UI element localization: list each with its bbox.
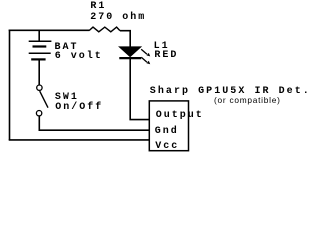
label Vcc pin <box>155 141 179 153</box>
label L1 <box>154 41 170 53</box>
wire top rail <box>9 29 90 31</box>
switch SW1 bottom contact circle <box>36 111 41 116</box>
label RED <box>154 50 178 62</box>
LED light arrow 1 head <box>147 53 151 57</box>
switch SW1 lever (open) <box>40 91 48 108</box>
battery BAT long plate 1 <box>29 40 52 42</box>
battery short thick plate 1 <box>33 45 47 47</box>
wire switch to Gnd pin <box>39 116 149 130</box>
label (or compatible) <box>214 95 281 105</box>
label Sharp GP1U5X IR Det. <box>150 86 311 98</box>
label On/Off <box>55 102 103 114</box>
LED light arrow 2 shaft <box>141 57 147 62</box>
label R1 <box>90 1 106 13</box>
label SW1 <box>55 92 79 104</box>
wire battery to switch <box>38 60 40 84</box>
wire left rail <box>9 30 11 140</box>
wire battery drop from top rail <box>38 30 40 41</box>
label Output pin <box>156 110 204 122</box>
IR detector module box <box>149 101 188 151</box>
LED L1 cathode bar <box>119 57 141 59</box>
switch SW1 top contact circle <box>37 85 42 90</box>
wire from resistor to LED corner <box>120 31 130 47</box>
label 270 ohm <box>90 12 146 24</box>
label Gnd pin <box>155 126 179 138</box>
LED L1 triangle (anode) <box>119 47 141 57</box>
label 6 volt <box>55 51 103 63</box>
wire LED cathode to Output pin <box>130 57 149 120</box>
battery long plate 2 <box>29 52 51 54</box>
battery short thick plate 2 <box>31 58 45 60</box>
wire bottom rail to Vcc pin <box>9 139 150 141</box>
resistor R1 zigzag <box>89 27 120 32</box>
LED light arrow 2 head <box>147 61 151 64</box>
LED light arrow 1 shaft <box>141 49 147 54</box>
label BAT <box>55 42 79 54</box>
